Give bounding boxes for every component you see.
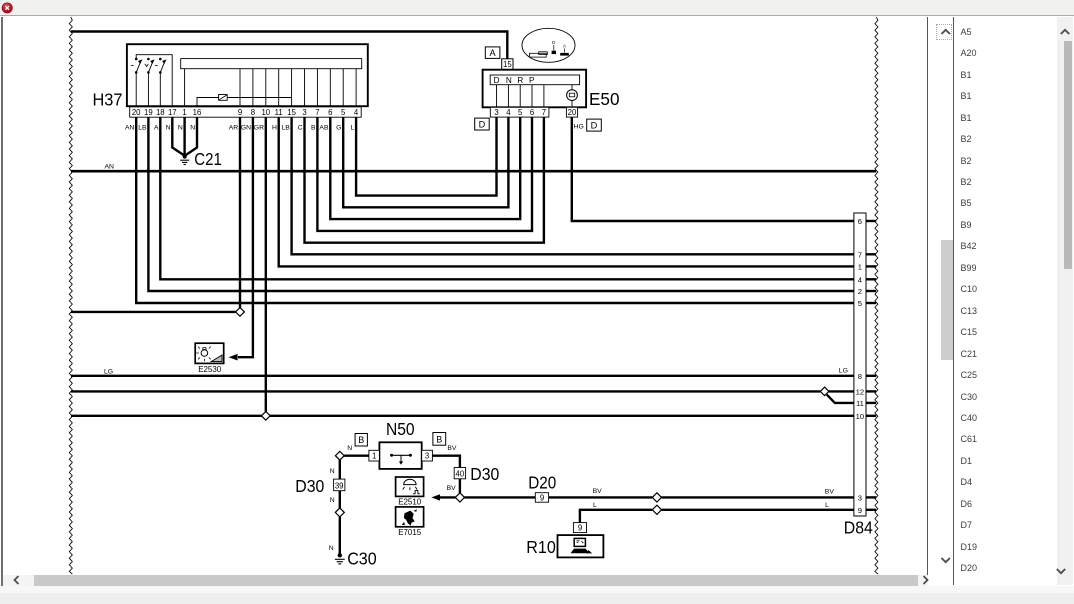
- svg-text:BV: BV: [825, 489, 835, 496]
- svg-text:D: D: [591, 121, 598, 131]
- ground C21: [172, 117, 197, 165]
- svg-text:3: 3: [858, 493, 862, 502]
- svg-text:AB: AB: [319, 125, 329, 132]
- svg-text:N50: N50: [386, 419, 415, 439]
- node junction on pin10 wire: [261, 412, 270, 421]
- svg-text:B: B: [436, 434, 442, 444]
- wire H37 pin7 to E50 pin6: [317, 117, 532, 231]
- wire N50 pin3 down to node: [432, 456, 460, 468]
- list scrollbar down arrow: [1055, 566, 1067, 576]
- node junction on BV line: [652, 493, 661, 502]
- svg-text:1: 1: [372, 452, 376, 461]
- selector switch E50 body: [483, 70, 586, 108]
- wire stub arrow from BV node: [438, 496, 455, 498]
- svg-text:5: 5: [858, 299, 862, 308]
- svg-text:C30: C30: [347, 549, 377, 569]
- svg-text:AN: AN: [125, 125, 135, 132]
- wire bus to D84 pin12: [71, 390, 820, 392]
- wire H37 pin11 to D84 pin1: [279, 117, 854, 266]
- svg-text:19: 19: [144, 108, 153, 117]
- E50 selector-lever pictogram oval: [522, 28, 575, 62]
- wire H37 pin6 to E50 pin5: [330, 117, 520, 219]
- svg-text:E7015: E7015: [398, 527, 421, 537]
- svg-text:GR: GR: [254, 125, 264, 132]
- wire L node to D84 pin9: [662, 509, 854, 511]
- svg-text:BV: BV: [593, 488, 603, 495]
- svg-text:B: B: [311, 125, 316, 132]
- svg-text:8: 8: [251, 108, 255, 117]
- H37 internal leads: [185, 69, 357, 107]
- wire torn-edge left boundary: [69, 17, 72, 574]
- pin 15 label box: [502, 59, 513, 70]
- svg-text:N: N: [330, 497, 335, 504]
- wire H37 pin18 to D84 pin4: [160, 117, 854, 279]
- wire E50 pin20 HG to D84 pin6: [572, 117, 854, 221]
- svg-text:16: 16: [193, 108, 202, 117]
- svg-text:3: 3: [425, 452, 429, 461]
- svg-text:9: 9: [578, 524, 582, 533]
- wire bus to D84 pin10: [71, 415, 854, 417]
- arrow on BV stub: [431, 494, 440, 500]
- svg-text:6: 6: [858, 217, 862, 226]
- wire H37 pin20 to D84 pin5: [136, 117, 854, 303]
- diagram vertical scrollbar thumb: [941, 240, 953, 360]
- connector label B left: [355, 434, 367, 447]
- svg-text:12: 12: [856, 387, 864, 396]
- svg-text:17: 17: [168, 108, 177, 117]
- E50 pin 20 box: [566, 107, 577, 117]
- node junction left of N50: [335, 451, 344, 460]
- svg-text:D: D: [494, 76, 500, 85]
- connector label B right: [433, 433, 446, 446]
- svg-text:L: L: [351, 125, 355, 132]
- svg-text:20: 20: [568, 108, 577, 117]
- close button: [1, 2, 14, 15]
- svg-text:A: A: [154, 125, 159, 132]
- wire BV node to D84 pin3 left: [465, 496, 653, 498]
- wire node to D84 pin12: [829, 390, 854, 392]
- svg-text:LG: LG: [104, 369, 113, 376]
- bottom status strip: [0, 586, 1074, 593]
- svg-text:7: 7: [858, 250, 862, 259]
- svg-text:LB: LB: [138, 125, 147, 132]
- svg-text:GN: GN: [241, 125, 251, 132]
- diagram vertical scrollbar down arrow: [940, 555, 952, 565]
- node junction on ground wire: [335, 508, 344, 517]
- node junction on pin9 wire: [236, 308, 245, 317]
- svg-text:N: N: [506, 76, 512, 85]
- wire edge feed to pin9 node: [71, 311, 236, 313]
- connector label D left of E50 pins: [475, 118, 490, 130]
- svg-text:1: 1: [858, 262, 862, 271]
- svg-text:D30: D30: [470, 464, 499, 484]
- horizontal scrollbar thumb: [34, 575, 918, 586]
- D30 pin 40 box: [454, 468, 465, 479]
- svg-text:AR: AR: [229, 125, 239, 132]
- svg-text:4: 4: [506, 108, 511, 117]
- E50 position letters D N R P: [494, 76, 535, 85]
- svg-text:L: L: [825, 502, 829, 509]
- svg-text:BV: BV: [447, 445, 457, 452]
- wire H37 pin19 to D84 pin2: [148, 117, 854, 291]
- diagnostic connector R10 body: [558, 535, 604, 557]
- wire R10 pin9 to D84 pin9 left: [580, 510, 652, 523]
- wire H37 pin9 branch: [239, 117, 241, 308]
- node junction on BV wire: [455, 493, 464, 502]
- svg-text:11: 11: [275, 108, 283, 117]
- svg-text:R: R: [517, 76, 523, 85]
- svg-text:BV: BV: [447, 485, 457, 492]
- svg-text:4: 4: [354, 108, 359, 117]
- wire N50 node down to pin39: [339, 460, 341, 479]
- H37 pin strip: [130, 107, 362, 117]
- svg-text:N: N: [330, 468, 335, 475]
- svg-text:39: 39: [335, 481, 344, 490]
- ground C30: [335, 553, 345, 564]
- wire H37 pin5 to E50 pin4: [343, 117, 508, 207]
- wire LG bus to D84 pin8: [71, 375, 854, 377]
- svg-text:8: 8: [858, 372, 862, 381]
- wire pin39 to junction: [339, 491, 341, 508]
- svg-text:LG: LG: [839, 368, 848, 375]
- wire AN bus: [71, 170, 876, 173]
- svg-text:E2530: E2530: [198, 364, 221, 374]
- svg-text:D84: D84: [844, 518, 873, 538]
- list scrollbar track: [1057, 17, 1073, 586]
- svg-text:15: 15: [503, 60, 512, 69]
- D84 pin stubs: [866, 221, 876, 510]
- H37 internal sensor branch: [197, 95, 292, 107]
- horizontal scrollbar: [3, 575, 928, 586]
- wire D30 pin40 to node: [459, 479, 461, 493]
- svg-text:10: 10: [856, 412, 864, 421]
- horizontal scrollbar right arrow: [920, 575, 930, 585]
- svg-text:L: L: [593, 502, 597, 509]
- wire node to N50 pin1: [344, 455, 369, 457]
- svg-text:9: 9: [858, 506, 862, 515]
- D30 pin 39 box: [334, 479, 345, 491]
- svg-text:N: N: [178, 125, 183, 132]
- svg-text:E50: E50: [589, 89, 620, 109]
- connector label D right of E50 pins: [587, 119, 602, 131]
- svg-text:3: 3: [302, 108, 306, 117]
- svg-text:AN: AN: [105, 163, 115, 170]
- svg-text:G: G: [336, 125, 341, 132]
- application title bar: [0, 0, 1074, 16]
- wire node branch to D84 pin11: [827, 395, 854, 403]
- lamp E2510 courtesy light icon: [396, 477, 424, 496]
- svg-text:10: 10: [261, 108, 270, 117]
- wire H37 pin10 branch: [265, 117, 267, 412]
- svg-text:N: N: [329, 545, 334, 552]
- H37 wire colour labels: [125, 125, 355, 132]
- D20 pin 9 box: [535, 493, 548, 503]
- R10 computer icon: [571, 538, 593, 553]
- svg-text:HG: HG: [574, 124, 584, 131]
- svg-text:5: 5: [341, 108, 346, 117]
- E50 internal display strip: [490, 75, 579, 85]
- H37 warning-lamp switch rail: [136, 55, 172, 106]
- svg-text:9: 9: [238, 108, 242, 117]
- node junction on L line: [652, 505, 661, 514]
- svg-text:N: N: [166, 125, 171, 132]
- N50 pushbutton contacts: [390, 454, 412, 465]
- wire H37 pin4 to E50 pin3: [356, 117, 496, 196]
- wire torn-edge right boundary: [875, 17, 878, 574]
- immobilizer E7015 icon: [396, 507, 424, 527]
- svg-text:6: 6: [530, 108, 534, 117]
- diagram vertical scrollbar up arrow: [940, 27, 952, 37]
- svg-text:18: 18: [156, 108, 165, 117]
- H37 internal gauge strip: [181, 59, 362, 69]
- svg-text:C21: C21: [194, 149, 222, 169]
- svg-text:9: 9: [540, 493, 544, 502]
- svg-text:D30: D30: [295, 476, 324, 496]
- svg-text:H: H: [272, 125, 277, 132]
- svg-text:40: 40: [456, 469, 465, 478]
- list scrollbar up arrow: [1059, 27, 1071, 37]
- svg-text:C: C: [298, 125, 303, 132]
- wire H37 pin8 to E2530: [238, 117, 253, 357]
- R10 pin 9 box: [573, 523, 586, 533]
- wire H37 pin3 to E50 pin7: [305, 117, 544, 243]
- diagram canvas: [3, 17, 928, 575]
- H37 telltale switches: [131, 58, 167, 106]
- connector D84 body: [854, 213, 866, 516]
- component list panel: [953, 17, 1074, 586]
- wire BV node to D84 pin3: [662, 496, 854, 498]
- E50 internal leads: [497, 85, 544, 108]
- N50 pin 3 box: [422, 450, 433, 461]
- svg-text:N: N: [347, 445, 352, 452]
- connector label A: [485, 47, 500, 59]
- arrow to E2530: [229, 354, 238, 361]
- svg-text:3: 3: [494, 108, 498, 117]
- svg-text:D20: D20: [528, 472, 556, 492]
- wire junction to ground C30: [339, 517, 341, 554]
- component list items: [961, 17, 1051, 586]
- svg-text:4: 4: [858, 275, 862, 284]
- D84 pin numbers: [856, 217, 864, 515]
- wire H37 pin15 to D84 pin7: [292, 117, 854, 254]
- instrument cluster H37 body: [127, 44, 368, 106]
- N50 pin 1 box: [369, 450, 380, 461]
- svg-text:7: 7: [315, 108, 319, 117]
- E50 buzzer symbol: [567, 85, 578, 108]
- svg-text:P: P: [529, 76, 535, 85]
- svg-text:LB: LB: [281, 125, 290, 132]
- wire ignition feed to E50 pin 15: [71, 32, 507, 60]
- node junction on pin12 wire: [820, 387, 829, 396]
- svg-text:5: 5: [518, 108, 523, 117]
- svg-text:A: A: [490, 48, 497, 58]
- svg-text:A: A: [563, 44, 566, 49]
- svg-text:2: 2: [858, 287, 862, 296]
- switch N50 body: [379, 442, 421, 469]
- svg-text:D: D: [479, 119, 486, 129]
- diagram vertical scrollbar focus outline: [936, 24, 952, 40]
- svg-text:R10: R10: [526, 537, 556, 557]
- horizontal scrollbar left arrow: [12, 575, 22, 585]
- svg-text:1: 1: [182, 108, 186, 117]
- svg-text:11: 11: [856, 399, 864, 408]
- svg-text:B: B: [358, 435, 364, 445]
- svg-text:N: N: [190, 125, 195, 132]
- svg-text:7: 7: [542, 108, 546, 117]
- svg-text:15: 15: [287, 108, 296, 117]
- E50 pin strip 3 4 5 6 7: [490, 107, 549, 117]
- svg-text:H37: H37: [93, 90, 123, 110]
- svg-text:6: 6: [328, 108, 332, 117]
- list scrollbar thumb: [1064, 41, 1073, 269]
- svg-text:E2510: E2510: [398, 497, 421, 507]
- svg-text:20: 20: [132, 108, 141, 117]
- lamp E2530 dimmer icon: [195, 343, 224, 363]
